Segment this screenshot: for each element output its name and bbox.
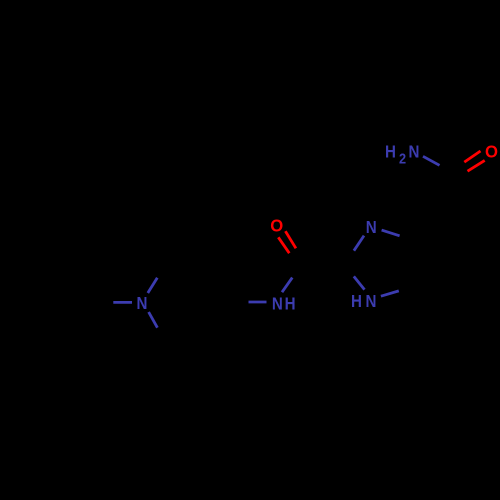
svg-text:O: O <box>485 142 498 161</box>
atom H of ring HN <box>351 292 362 311</box>
double bond C=O right, upper line <box>464 151 480 162</box>
bond NH(amide)-CH(piperidine) half <box>249 301 267 304</box>
bond C2-N3(imidazoline) half <box>354 276 365 289</box>
atom H of amide NH <box>285 294 296 313</box>
atom O left carbonyl <box>270 216 283 235</box>
atom N3 of ring HN <box>366 292 377 311</box>
svg-text:O: O <box>270 216 283 235</box>
svg-text:H: H <box>385 142 396 161</box>
atom O right carboxamide <box>485 142 498 161</box>
bond N(piperidine)-C2 ring half <box>148 278 158 293</box>
bond N1-C5(imidazoline) half <box>382 230 400 236</box>
subscript 2 of H2N <box>399 151 406 167</box>
double bond C=O left, line 1 <box>278 237 289 253</box>
atom N of amide NH <box>272 294 283 313</box>
bond NH(amide)-C(carbonyl) half <box>282 278 292 293</box>
atom H of H2N <box>385 142 396 161</box>
svg-text:N: N <box>409 142 420 161</box>
atom N piperidine <box>137 294 148 313</box>
bond N1(imidazoline)-C2 half <box>354 236 364 251</box>
bond N(piperidine)-CH2(propyl) half <box>113 301 132 304</box>
double bond C=O right, lower line <box>468 160 485 171</box>
double bond C=O left, line 2 <box>285 231 296 248</box>
bond N(piperidine)-C6 ring half <box>149 312 158 328</box>
svg-text:N: N <box>366 292 377 311</box>
bond H2N-C(carboxamide) half <box>423 156 440 165</box>
svg-text:H: H <box>285 294 296 313</box>
atom N1 imidazoline <box>366 218 377 237</box>
bond N3-C4(imidazoline) half <box>381 291 399 296</box>
svg-text:N: N <box>366 218 377 237</box>
atom N of H2N <box>409 142 420 161</box>
svg-text:2: 2 <box>399 151 406 167</box>
svg-text:N: N <box>272 294 283 313</box>
svg-text:N: N <box>137 294 148 313</box>
svg-text:H: H <box>351 292 362 311</box>
